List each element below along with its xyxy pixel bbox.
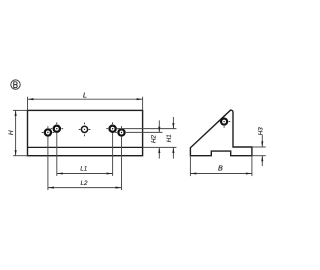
dimension H2 arrow bottom (pointing up) xyxy=(158,147,160,153)
extension line from hole B down to L1 xyxy=(56,133,58,176)
dimension L2 arrow right xyxy=(116,187,122,189)
svg-text:H1: H1 xyxy=(166,134,173,142)
dimension L arrow left xyxy=(28,98,34,100)
step edge extension line to H1/H2 xyxy=(143,146,177,148)
hole B counterbored (inner left) xyxy=(51,122,64,131)
dimension H3 arrow bottom (pointing up) xyxy=(261,156,263,162)
dimension H arrow bottom xyxy=(15,150,17,156)
svg-text:H3: H3 xyxy=(257,127,264,135)
side view outline xyxy=(190,110,252,156)
dimension H3 extension line top xyxy=(252,146,266,148)
dimension L2 arrow left xyxy=(48,187,54,189)
svg-text:L: L xyxy=(83,91,87,100)
hole A counterbored (outer left) xyxy=(42,126,55,135)
svg-text:B: B xyxy=(218,163,223,172)
svg-text:H2: H2 xyxy=(151,134,158,142)
dimension H2 line top tail xyxy=(158,120,160,132)
front view step edge line xyxy=(28,146,143,148)
dimension L line xyxy=(28,98,143,100)
dimension H extension line top xyxy=(13,109,28,111)
dimension B arrow left xyxy=(190,172,196,174)
dimension B extension line right xyxy=(251,156,253,176)
dimension H3 extension line bottom xyxy=(252,155,266,157)
extension line from hole A down to L2 xyxy=(47,137,49,190)
dimension L1 arrow right xyxy=(107,172,113,174)
dimension H3 line top tail xyxy=(261,135,263,147)
dimension H1 line bottom tail xyxy=(172,147,174,158)
front view plate outline xyxy=(28,110,143,155)
view label circled B xyxy=(11,80,20,89)
svg-text:L2: L2 xyxy=(80,180,88,187)
leader line from hole E to H2 xyxy=(126,131,163,133)
dimension H1 line top tail xyxy=(172,117,174,129)
dimension L1 line xyxy=(57,173,113,175)
hole D counterbored (inner right) xyxy=(106,122,115,131)
dimension L extension line left xyxy=(27,97,29,111)
dimension H arrow top xyxy=(15,110,17,116)
dimension H1 arrow bottom (pointing up) xyxy=(172,147,174,153)
side view hole xyxy=(218,115,230,127)
dimension B extension line left xyxy=(189,156,191,176)
dimension H2 arrow top (pointing down) xyxy=(158,127,160,133)
svg-text:H: H xyxy=(8,130,15,135)
dimension H line xyxy=(15,110,17,155)
dimension L2 line xyxy=(48,187,122,189)
leader line from hole D to H1 xyxy=(117,128,176,130)
dimension B line xyxy=(190,173,252,175)
hole C center hole xyxy=(79,123,91,137)
dimension L arrow right xyxy=(137,98,143,100)
dimension H extension line bottom xyxy=(13,155,28,157)
dimension H3 line bottom tail xyxy=(261,156,263,166)
dimension H2 line bottom tail xyxy=(158,147,160,158)
extension line from hole E down to L2 xyxy=(121,137,123,190)
hole E counterbored (outer right) xyxy=(115,126,124,135)
dimension H1 arrow top (pointing down) xyxy=(172,123,174,129)
dimension L1 arrow left xyxy=(57,172,63,174)
dimension B arrow right xyxy=(246,172,252,174)
extension line from hole D down to L1 xyxy=(112,133,114,176)
dimension H3 arrow top (pointing down) xyxy=(261,141,263,147)
svg-text:L1: L1 xyxy=(80,166,87,173)
dimension L extension line right xyxy=(142,97,144,111)
